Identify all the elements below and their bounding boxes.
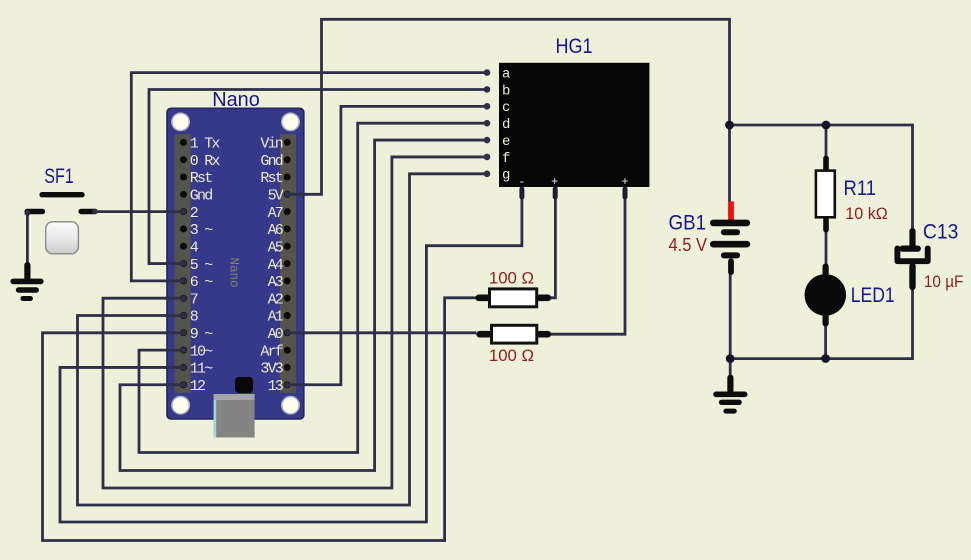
svg-text:5 ~: 5 ~	[190, 257, 213, 274]
svg-text:Nano: Nano	[212, 89, 260, 111]
svg-text:A4: A4	[268, 257, 284, 274]
svg-text:g: g	[502, 168, 510, 184]
svg-text:Gnd: Gnd	[260, 153, 282, 170]
svg-text:c: c	[502, 100, 510, 116]
svg-text:A5: A5	[268, 239, 284, 256]
svg-text:A6: A6	[268, 222, 284, 239]
svg-text:Rst: Rst	[260, 170, 282, 187]
svg-text:7: 7	[190, 291, 198, 308]
svg-text:A3: A3	[268, 274, 284, 291]
svg-text:4.5 V: 4.5 V	[669, 235, 708, 255]
svg-text:6 ~: 6 ~	[190, 274, 213, 291]
svg-text:f: f	[502, 151, 510, 167]
svg-text:Arf: Arf	[260, 343, 283, 360]
svg-text:1 Tx: 1 Tx	[190, 136, 221, 153]
svg-text:Rst: Rst	[190, 170, 212, 187]
svg-text:Vin: Vin	[260, 136, 282, 153]
svg-text:b: b	[502, 83, 510, 99]
svg-text:A2: A2	[268, 291, 283, 308]
svg-text:12: 12	[190, 378, 205, 395]
svg-text:A0: A0	[268, 326, 284, 343]
svg-text:5V: 5V	[268, 188, 284, 205]
svg-text:10 µF: 10 µF	[924, 272, 964, 291]
svg-text:a: a	[502, 66, 510, 82]
svg-text:R11: R11	[844, 177, 877, 200]
svg-text:C13: C13	[923, 221, 959, 244]
svg-text:3V3: 3V3	[260, 361, 283, 378]
svg-text:A7: A7	[268, 205, 283, 222]
svg-text:9 ~: 9 ~	[190, 326, 213, 343]
svg-text:100 Ω: 100 Ω	[489, 269, 534, 288]
svg-text:2: 2	[190, 205, 198, 222]
svg-text:13: 13	[268, 378, 284, 395]
svg-text:10 kΩ: 10 kΩ	[845, 204, 888, 223]
svg-text:LED1: LED1	[851, 284, 895, 307]
svg-text:0 Rx: 0 Rx	[190, 153, 221, 170]
svg-text:SF1: SF1	[44, 165, 74, 188]
svg-text:100 Ω: 100 Ω	[489, 346, 534, 365]
svg-text:Nano: Nano	[227, 257, 241, 287]
svg-text:d: d	[502, 117, 510, 133]
svg-text:e: e	[502, 134, 510, 150]
svg-text:GB1: GB1	[669, 212, 707, 235]
svg-text:11~: 11~	[190, 361, 213, 378]
svg-text:3 ~: 3 ~	[190, 222, 213, 239]
svg-text:HG1: HG1	[556, 35, 593, 58]
svg-text:A1: A1	[268, 309, 284, 326]
svg-text:Gnd: Gnd	[190, 188, 212, 205]
svg-text:10~: 10~	[190, 343, 213, 360]
